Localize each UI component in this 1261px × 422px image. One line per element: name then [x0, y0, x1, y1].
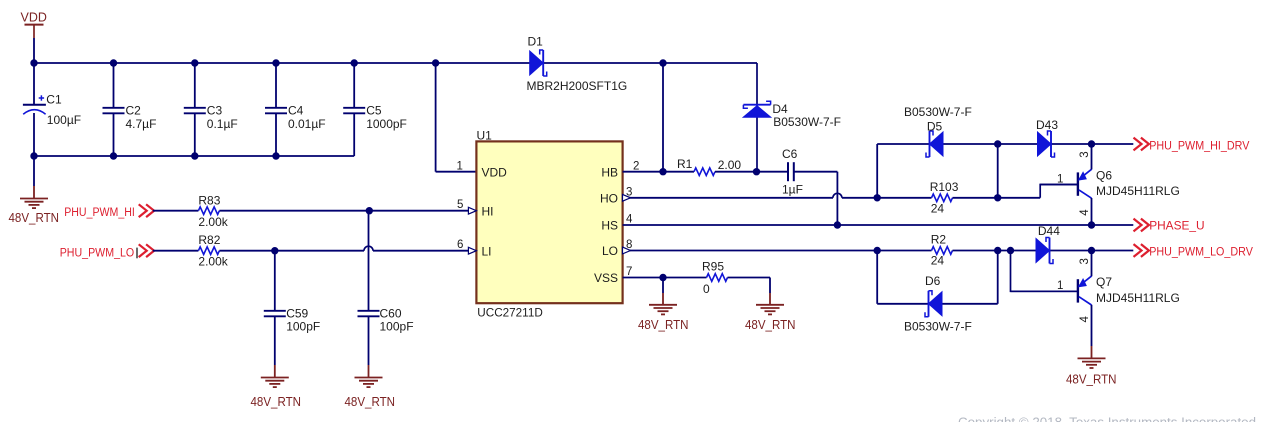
svg-text:C5: C5 [366, 103, 382, 117]
wire hop over C60 [364, 246, 373, 251]
svg-text:7: 7 [626, 266, 632, 278]
wire Q6 collector [1091, 198, 1093, 225]
junction [659, 59, 666, 66]
wire down to ground [769, 278, 771, 294]
ground G2 48V_RTN [261, 378, 289, 388]
diode D6 B0530W-7-F [925, 291, 942, 317]
svg-text:R103: R103 [930, 180, 959, 194]
wire C1 bottom [33, 113, 35, 156]
svg-text:PHU_PWM_LO_DRV: PHU_PWM_LO_DRV [1149, 244, 1253, 258]
svg-text:VSS: VSS [594, 271, 618, 285]
svg-text:MBR2H200SFT1G: MBR2H200SFT1G [527, 79, 628, 93]
transistor Q6 MJD45H11RLG [1040, 169, 1091, 198]
wire C60 to ground [368, 316, 370, 365]
svg-text:100pF: 100pF [380, 320, 414, 334]
wire C5 top [353, 63, 355, 107]
wire C2 top [113, 63, 115, 107]
svg-text:1000pF: 1000pF [366, 117, 407, 131]
svg-text:R1: R1 [677, 157, 693, 171]
svg-text:HI: HI [482, 204, 494, 218]
svg-text:D5: D5 [927, 119, 943, 133]
wire to D43 [998, 143, 1092, 145]
svg-text:C6: C6 [782, 147, 798, 161]
svg-text:1: 1 [1057, 173, 1063, 185]
junction [191, 152, 198, 159]
wire C59 to ground [274, 316, 276, 365]
wire top rail to HB node [662, 63, 664, 172]
wire top rail corner down to D4 [756, 63, 758, 172]
resistor R103 zigzag [932, 194, 953, 202]
junction [110, 152, 117, 159]
svg-text:D6: D6 [925, 274, 941, 288]
net arrow PHU_PWM_LO_DRV [1134, 244, 1149, 257]
resistor R82 zigzag [198, 247, 219, 255]
wire C6 right [794, 171, 838, 173]
svg-text:C4: C4 [288, 103, 304, 117]
svg-text:HO: HO [600, 191, 618, 205]
wire D5 right down to HO [997, 144, 999, 198]
svg-text:48V_RTN: 48V_RTN [251, 395, 302, 409]
svg-text:4: 4 [1079, 209, 1091, 216]
ground stub [33, 186, 35, 199]
svg-text:6: 6 [457, 239, 463, 251]
svg-text:2.00k: 2.00k [198, 254, 228, 268]
resistor R2 zigzag [932, 247, 953, 255]
pin 5 input arrow [468, 207, 476, 214]
wire HI to C60 [368, 211, 370, 310]
svg-text:Q6: Q6 [1096, 168, 1112, 182]
junction [1007, 247, 1014, 254]
ground stub Q7 [1091, 346, 1093, 358]
svg-text:100µF: 100µF [47, 113, 81, 127]
svg-text:D1: D1 [528, 35, 544, 49]
wire PHU_PWM_LO to R82 [153, 250, 199, 252]
net arrow PHU_PWM_HI_DRV [1134, 138, 1149, 151]
wire Q6 emitter [1091, 144, 1093, 170]
wire D5 line [877, 143, 998, 145]
wire pin7 VSS [623, 277, 707, 279]
pin 3 output arrow [623, 194, 631, 201]
junction [753, 168, 760, 175]
resistor R1 zigzag [694, 168, 715, 176]
junction [432, 59, 439, 66]
ground G1 48V_RTN [20, 199, 48, 209]
wire pin8 LO [623, 250, 932, 252]
wire C5 bottom [353, 114, 355, 157]
svg-text:D43: D43 [1036, 118, 1058, 132]
junction [874, 194, 881, 201]
junction LO/C59 [271, 247, 278, 254]
junction [110, 59, 117, 66]
svg-text:D4: D4 [772, 102, 788, 116]
wire D6 right up to LO [997, 251, 999, 304]
diode D4 B0530W-7-F [743, 101, 771, 117]
junction [30, 59, 37, 66]
svg-text:48V_RTN: 48V_RTN [638, 318, 689, 332]
svg-text:3: 3 [1079, 258, 1091, 264]
ground stub C60 [368, 365, 370, 378]
wire D6 line [877, 303, 998, 305]
junction [994, 140, 1001, 147]
svg-text:R2: R2 [931, 233, 947, 247]
wire to ground [33, 156, 35, 186]
junction HI/C60 [366, 207, 373, 214]
svg-text:48V_RTN: 48V_RTN [345, 395, 396, 409]
wire Q7 emitter [1091, 251, 1093, 277]
wire D43 to net arrow [1092, 143, 1134, 145]
ground G4 48V_RTN [649, 305, 677, 315]
svg-text:B0530W-7-F: B0530W-7-F [773, 115, 841, 129]
svg-text:2.00: 2.00 [718, 158, 742, 172]
capacitor C6 1uF [782, 147, 803, 197]
capacitor C3 0.1µF [184, 108, 206, 114]
wire pin3 HO [623, 197, 833, 199]
wire Q7 collector [1091, 305, 1093, 346]
wire R2 to net arrow [953, 250, 1134, 252]
svg-text:B0530W-7-F: B0530W-7-F [904, 105, 972, 119]
wire R1 to C6 [715, 171, 788, 173]
wire pin4 HS PHASE_U [623, 224, 1134, 226]
wire R103 to Q6 base step [953, 197, 1041, 199]
wire C3 bottom [194, 114, 196, 157]
pin 6 input arrow [468, 247, 476, 254]
capacitor C60 100pF [358, 311, 380, 317]
svg-text:24: 24 [931, 254, 945, 268]
diode D5 B0530W-7-F [926, 131, 943, 157]
capacitor C2 4.7µF [103, 108, 125, 114]
wire C2 bottom [113, 114, 115, 157]
svg-text:U1: U1 [477, 129, 493, 143]
wire R82 to hop [219, 250, 364, 252]
op-amp U1 UCC27211D body [476, 141, 622, 303]
svg-text:R95: R95 [702, 259, 724, 273]
svg-text:48V_RTN: 48V_RTN [1066, 373, 1117, 387]
svg-text:4.7µF: 4.7µF [126, 117, 157, 131]
junction [351, 59, 358, 66]
power port VDD [21, 11, 47, 39]
junction [191, 59, 198, 66]
svg-text:0: 0 [703, 282, 710, 296]
wire bottom rail [34, 155, 354, 157]
svg-text:48V_RTN: 48V_RTN [745, 318, 796, 332]
wire VSS to ground [662, 278, 664, 294]
wire R95 right [728, 277, 771, 279]
svg-text:100pF: 100pF [286, 320, 320, 334]
svg-text:C1: C1 [46, 93, 62, 107]
junction [1088, 221, 1095, 228]
junction [659, 274, 666, 281]
svg-text:3: 3 [1079, 151, 1091, 157]
svg-text:24: 24 [931, 202, 945, 216]
wire Q7 base drop [1011, 251, 1078, 292]
junction [994, 247, 1001, 254]
svg-text:C60: C60 [380, 306, 402, 320]
wire C4 bottom [275, 114, 277, 157]
capacitor C1 100uF (polarized) [23, 93, 81, 128]
svg-text:C59: C59 [286, 306, 308, 320]
resistor R95 zigzag [707, 274, 728, 282]
transistor Q7 MJD45H11RLG [1011, 276, 1092, 305]
svg-text:48V_RTN: 48V_RTN [9, 211, 60, 225]
svg-text:D44: D44 [1038, 224, 1060, 238]
junction [272, 59, 279, 66]
svg-text:Q7: Q7 [1096, 275, 1112, 289]
diode D43 [1038, 131, 1055, 157]
junction [874, 247, 881, 254]
capacitor C5 1000pF [343, 108, 365, 114]
svg-text:MJD45H11RLG: MJD45H11RLG [1096, 291, 1180, 305]
wire C4 top [275, 63, 277, 107]
net arrow PHU_PWM_LO [139, 244, 154, 257]
svg-text:VDD: VDD [21, 11, 47, 25]
svg-text:0.1µF: 0.1µF [207, 117, 238, 131]
junction [994, 194, 1001, 201]
svg-text:R82: R82 [198, 233, 220, 247]
wire top rail to pin1 [435, 63, 437, 172]
ground stub C59 [274, 365, 276, 378]
svg-text:B0530W-7-F: B0530W-7-F [904, 320, 972, 334]
net arrow PHASE_U [1134, 219, 1149, 232]
wire hop to pin6 [373, 250, 469, 252]
svg-text:1: 1 [457, 160, 463, 172]
wire C1 top [33, 63, 35, 104]
wire hop to R103 [842, 197, 932, 199]
diode D44 [1036, 238, 1053, 264]
junction [30, 152, 37, 159]
svg-text:PHU_PWM_HI_DRV: PHU_PWM_HI_DRV [1149, 138, 1250, 152]
text caret artifact [136, 248, 138, 259]
ground G6 48V_RTN [1078, 358, 1106, 368]
svg-text:MJD45H11RLG: MJD45H11RLG [1096, 184, 1180, 198]
wire hop over C6 branch [833, 193, 842, 198]
wire pin2 HB [623, 171, 694, 173]
svg-text:PHU_PWM_LO: PHU_PWM_LO [60, 245, 135, 259]
svg-text:PHASE_U: PHASE_U [1149, 218, 1204, 232]
svg-text:Copyright © 2018, Texas Instru: Copyright © 2018, Texas Instruments Inco… [958, 414, 1256, 422]
svg-text:5: 5 [457, 199, 463, 211]
net arrow PHU_PWM_HI [139, 204, 154, 217]
capacitor C4 0.01µF [265, 108, 287, 114]
junction [1088, 247, 1095, 254]
wire top rail [34, 62, 757, 64]
svg-text:1: 1 [1057, 280, 1063, 292]
svg-text:UCC27211D: UCC27211D [477, 306, 543, 320]
junction [1088, 140, 1095, 147]
svg-text:0.01µF: 0.01µF [288, 117, 326, 131]
wire VDD to top rail [33, 38, 35, 63]
svg-text:HB: HB [601, 165, 618, 179]
junction [272, 152, 279, 159]
wire PHU_PWM_HI to R83 [153, 210, 199, 212]
wire HO up to D5 [876, 144, 878, 198]
svg-text:C2: C2 [126, 103, 142, 117]
svg-text:1µF: 1µF [782, 183, 803, 197]
junction [659, 168, 666, 175]
svg-text:4: 4 [626, 214, 633, 226]
wire C3 top [194, 63, 196, 107]
svg-text:PHU_PWM_HI: PHU_PWM_HI [64, 205, 135, 219]
wire R83 to pin5 [219, 210, 468, 212]
svg-text:VDD: VDD [482, 165, 508, 179]
svg-text:LO: LO [602, 244, 618, 258]
capacitor C59 100pF [264, 311, 286, 317]
resistor R83 zigzag [198, 207, 219, 215]
junction [834, 221, 841, 228]
wire C6 down to HS [836, 172, 838, 225]
ground G5 48V_RTN [756, 305, 784, 315]
svg-text:2: 2 [633, 160, 639, 172]
wire to C59 [274, 251, 276, 310]
ground G3 48V_RTN [355, 378, 383, 388]
svg-text:C3: C3 [207, 103, 223, 117]
pin 8 output arrow [623, 247, 631, 254]
ground stub VSS [662, 293, 664, 305]
wire LO down to D6 [876, 251, 878, 304]
svg-text:HS: HS [601, 219, 618, 233]
diode D1 glyph [530, 50, 547, 76]
svg-text:R83: R83 [198, 194, 220, 208]
wire into pin1 [436, 171, 477, 173]
wire Q6 base step [1040, 185, 1077, 198]
svg-text:4: 4 [1079, 316, 1091, 323]
svg-text:LI: LI [482, 244, 492, 258]
svg-text:2.00k: 2.00k [198, 215, 228, 229]
ground stub R95 [769, 293, 771, 305]
